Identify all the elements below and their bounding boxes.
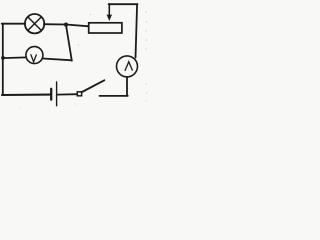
ammeter A1 — [117, 56, 138, 77]
wire left vertical — [2, 24, 4, 95]
wire voltmeter to riser — [43, 59, 72, 61]
voltmeter V1 — [26, 47, 43, 64]
scan noise specks — [20, 11, 148, 108]
wire ammeter down — [126, 77, 128, 96]
wire battery to switch — [57, 93, 77, 95]
wire lamp to node A — [44, 23, 66, 25]
wire node B to voltmeter — [3, 56, 27, 59]
lamp L1 — [25, 14, 44, 33]
wire top-left (lamp left lead) — [2, 23, 25, 25]
rheostat R (resistor body) — [89, 23, 122, 33]
wire bottom-left — [2, 94, 50, 97]
battery B1 negative plate (short) — [50, 89, 52, 100]
wire riser up to node A — [66, 26, 72, 61]
switch S (lever) — [81, 80, 105, 92]
node B (junction dot on left wire) — [1, 56, 5, 60]
rheostat slider arrow — [107, 4, 112, 21]
node A (junction dot) — [64, 23, 68, 27]
wire node A to rheostat — [66, 25, 89, 27]
wire right vertical down to ammeter — [136, 4, 138, 57]
wire bottom-right horizontal — [100, 95, 128, 97]
switch S (pivot square) — [77, 92, 81, 96]
battery B1 positive plate (long) — [56, 82, 58, 106]
wire top-right horizontal — [109, 3, 138, 5]
